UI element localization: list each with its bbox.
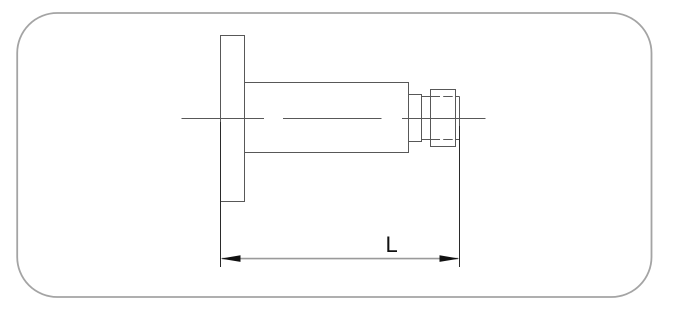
svg-text:L: L	[386, 232, 398, 257]
